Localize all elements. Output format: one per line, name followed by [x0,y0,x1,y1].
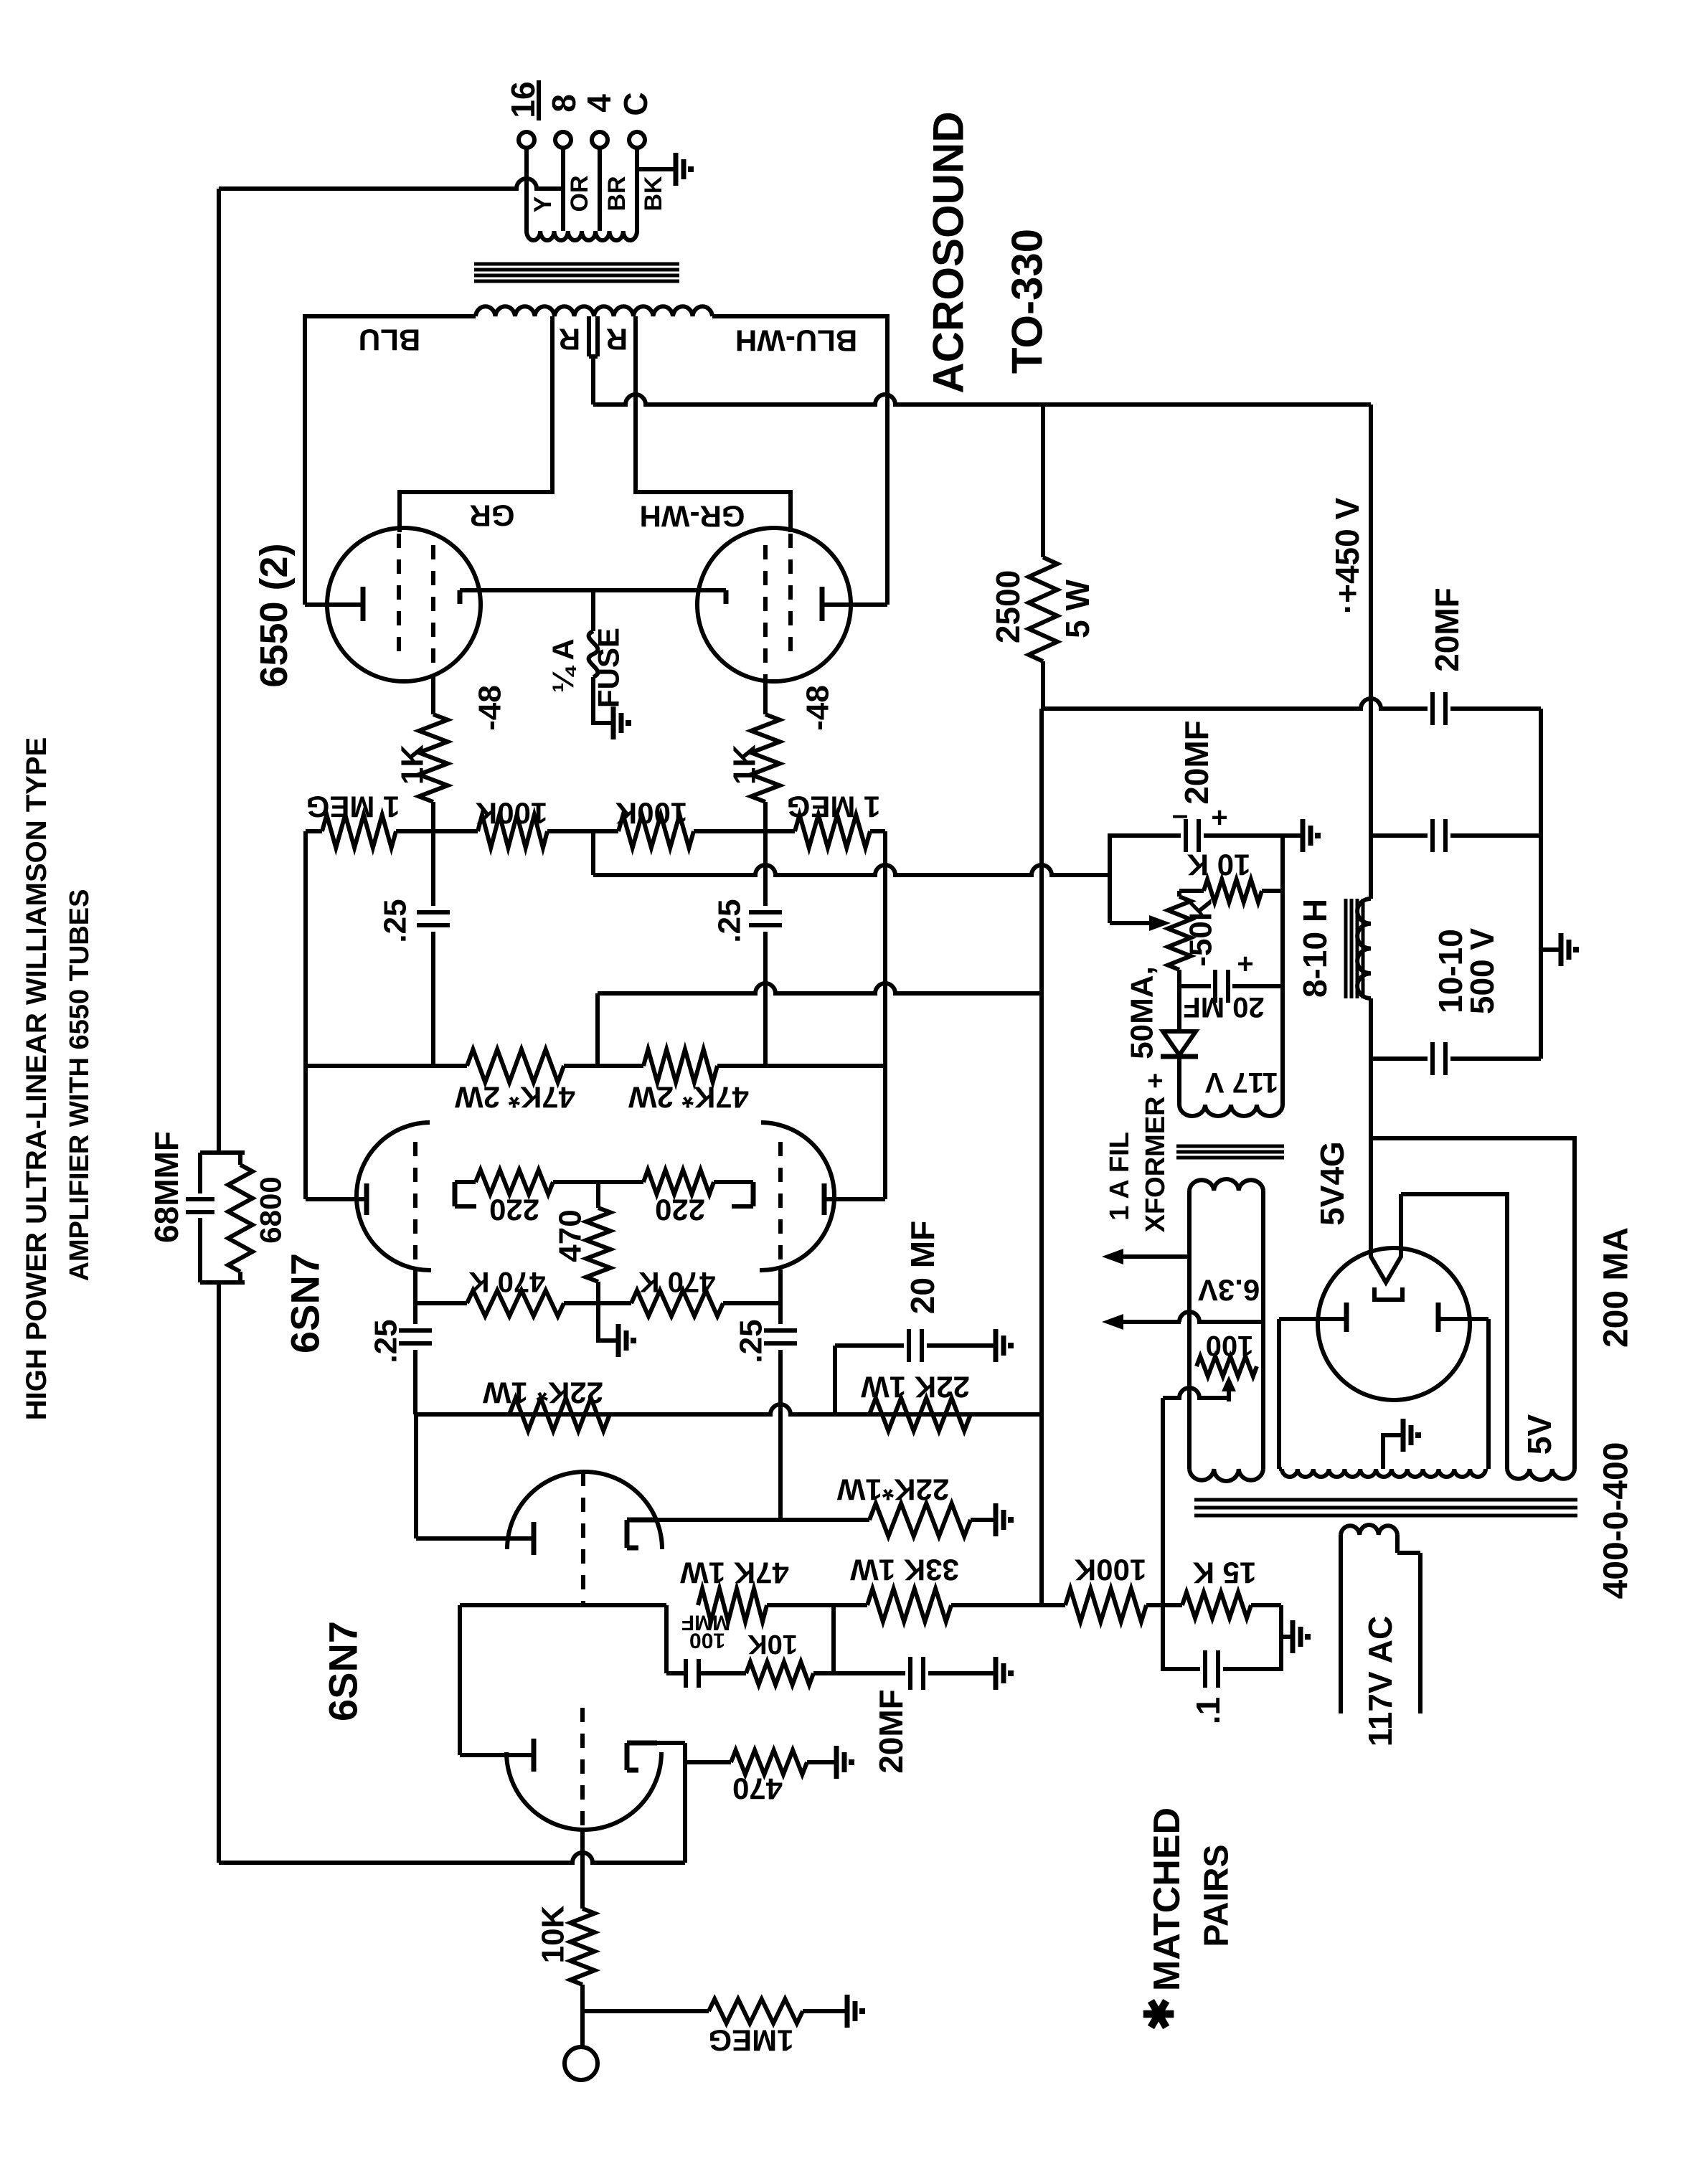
tube V4 plate [305,587,363,621]
wire R11 to junction [763,802,768,831]
svg-text:-50K: -50K [1184,898,1219,967]
label 10-10 [1432,929,1469,1013]
label 470K (left) [469,1266,546,1297]
label 6550 (2) [253,543,296,687]
label 470 (input) [732,1772,783,1806]
wire ground rail right [1539,709,1543,1059]
ground at C7 [993,1329,1011,1362]
resistor R7 1MEG (right) [795,815,870,848]
terminal C of output transformer secondary [629,132,645,148]
svg-text:✱: ✱ [1137,1998,1182,2031]
svg-text:100K: 100K [476,797,547,831]
svg-text:15 K: 15 K [1193,1556,1257,1590]
svg-text:100: 100 [689,1629,725,1653]
label 100 (hum pot) [1206,1330,1254,1361]
fuse F1 1/4A [589,631,598,677]
label .1 [1189,1697,1227,1724]
wire bias ground stub [1283,833,1300,838]
svg-text:BLU-WH: BLU-WH [735,324,857,358]
fil transformer 6.3V secondary [1189,1179,1263,1191]
label R (left) [559,323,580,356]
label 117 V (fil) [1205,1067,1279,1098]
label C [617,92,654,115]
label 100K (bias) [1075,1554,1146,1587]
wire splitter plate to C5 [414,1414,418,1538]
svg-text:50MA,: 50MA, [1125,966,1160,1059]
resistor R23 1MEG (grid leak) [582,1999,844,2023]
label TO-330 [1004,229,1052,374]
fil transformer 117V primary [1179,1105,1283,1116]
label -50K [1184,898,1219,967]
title line 2 [65,889,95,1282]
capacitor C8 20MF (input B+ bypass) [834,1657,993,1690]
wire 15K to ground [1281,1605,1290,1637]
resistor R29 15K (bias divider) [1163,1592,1281,1618]
resistor R4 47K 1W [698,1589,767,1622]
wire left driver column [306,831,364,1199]
wire V2 grid to C5 [413,1270,417,1324]
resistor R15 220 (right) [598,1170,753,1194]
wire fuse branch [591,590,595,631]
wire R center tap pair [589,316,598,405]
svg-text:47K* 2W: 47K* 2W [455,1081,575,1115]
label 68MMF [148,1131,185,1243]
potentiometer R27 100 (hum balance) [1197,1356,1257,1376]
label -48 (right) [801,685,836,731]
capacitor C14 20MF (bias reservoir) [1179,970,1283,1003]
resistor R12 470 (input cathode) [685,1750,834,1774]
resistor R5 33K 1W [867,1589,951,1622]
wire BLU lead [305,316,476,605]
label FUSE [592,628,626,708]
label minus (C13) [1172,799,1188,831]
svg-text:1K: 1K [395,744,430,785]
label 200 MA [1598,1227,1636,1348]
resistor R1 6800 [228,1153,253,1282]
label 1K (left) [395,744,430,785]
label MMF (C9) [681,1611,730,1635]
label BLU [359,323,420,357]
label 8-10 H [1296,899,1334,998]
wire driver B+ rail [1039,709,1044,1605]
wire heater rail left [1187,1191,1192,1469]
wire feedback from 8 ohm tap [219,179,563,189]
tube V6 cathode sleeve [1374,1287,1402,1300]
wire B+ center tap line to +450V rail [593,394,1371,405]
tube V2 plate [364,1183,369,1215]
svg-text:HIGH POWER ULTRA-LINEAR WILLIA: HIGH POWER ULTRA-LINEAR WILLIAMSON TYPE [21,737,52,1421]
note asterisk [1137,1998,1182,2031]
ground at fuse [610,706,628,739]
svg-text:BLU: BLU [359,323,420,357]
wire step network branch [666,1605,684,1673]
svg-text:–: – [1172,799,1188,831]
svg-text:22K* 1W: 22K* 1W [483,1376,603,1410]
label +450 V [1329,497,1366,614]
label 400-0-400 [1598,1442,1636,1599]
svg-text:2500: 2500 [989,570,1027,643]
resistor R14 220 (left) [455,1170,598,1194]
main transformer 5V winding [1507,1469,1575,1480]
resistor R16 47K 2W (left) [467,1049,564,1082]
ground at rail [1558,933,1576,966]
tube V3 cathode [732,1182,753,1206]
capacitor C11 10MF (filter) [1433,819,1541,852]
output transformer secondary winding [527,231,637,240]
wire +450 to C11 [1371,833,1428,838]
terminal 16 of output transformer secondary [519,132,534,148]
tube V5 6550 right envelope [697,528,851,681]
label 470 (driver) [553,1209,588,1262]
wire GR screen tap lead [400,316,552,532]
label 22K* 1W (cathode load) [836,1473,949,1507]
main transformer 117VAC primary [1341,1525,1397,1535]
wire heater rail right [1261,1191,1265,1469]
potentiometer R25 -50K [1168,891,1191,986]
svg-text:6550 (2): 6550 (2) [253,543,296,687]
wire grid resistor row [306,829,885,833]
label 100 (C9) [689,1629,725,1653]
label plus (bias cap) [1237,948,1253,980]
svg-text:68MMF: 68MMF [148,1131,185,1243]
label BK [640,176,667,212]
tube V5 screen grid (dashed) [788,534,793,657]
label BR [603,176,631,211]
label XFORMER + [1141,1073,1171,1233]
label 47K* 2W (right) [628,1081,749,1115]
label ACROSOUND [925,111,973,393]
svg-text:100: 100 [1206,1330,1254,1361]
svg-text:GR: GR [470,499,515,533]
svg-text:20MF: 20MF [1428,587,1466,672]
label 47K 1W [680,1556,789,1590]
svg-text:OR: OR [566,176,593,212]
resistor R21 22K 1W (plate load b) [869,1398,971,1431]
capacitor C12 10MF (filter input) [1433,1042,1541,1075]
label 33K 1W [850,1554,959,1587]
svg-text:220: 220 [655,1193,705,1227]
label 15K [1193,1556,1257,1590]
wire R10 to junction [431,802,435,831]
output transformer core [474,264,679,281]
wire V4 grid lead [431,681,435,714]
label GR-WH [640,500,745,534]
svg-text:5V4G: 5V4G [1313,1141,1351,1226]
label 1K (right) [727,744,763,785]
tube V1b cathode [627,1520,657,1548]
label 10K (input) [536,1905,571,1963]
svg-text:22K 1W: 22K 1W [861,1371,970,1404]
label 22K 1W (plate load b) [861,1371,970,1404]
tube V1b grid (dashed) [581,1472,585,1605]
fil transformer core [1176,1146,1284,1158]
label .25 (C6) [734,1319,769,1363]
svg-text:47K* 2W: 47K* 2W [628,1081,749,1115]
label 47K* 2W (left) [455,1081,575,1115]
svg-text:16: 16 [504,81,542,118]
tube V5 plate [822,587,887,621]
label 1 MEG (left) [306,790,400,824]
svg-text:33K 1W: 33K 1W [850,1554,959,1587]
label 22K* 1W (plate load a) [483,1376,603,1410]
wire GR-WH screen tap lead [636,316,791,532]
wire rectifier node [1369,998,1373,1249]
svg-text:R: R [606,323,628,356]
svg-text:.1: .1 [1189,1697,1227,1724]
resistor R24 2500 5W [1029,405,1057,709]
wire OR lead (8 ohm tap) [561,148,565,231]
resistor R26 10K (bias divider) [1179,879,1283,902]
svg-text:1 MEG: 1 MEG [306,790,400,824]
arrow heater feed 2 [1102,1312,1263,1330]
wire BLU-WH lead [712,316,887,605]
resistor R2 10K (grid stopper) [570,1909,595,1985]
tube V6 plate right [1438,1303,1488,1332]
tube V4 screen grid (dashed) [397,534,401,657]
wire 20MF branch [835,1346,904,1414]
ground at 15K [1290,1620,1308,1653]
tube V3 grid (dashed) [778,1142,783,1270]
svg-text:1K: 1K [727,744,763,785]
svg-text:C: C [617,92,654,115]
svg-text:470: 470 [732,1772,783,1806]
svg-text:TO-330: TO-330 [1004,229,1052,374]
wire input plate riser [458,1605,462,1755]
capacitor C13 20MF (bias filter) [1186,819,1283,852]
tube V5 cathode [724,590,729,604]
wire 5V return loop [1371,1138,1575,1469]
svg-text:200 MA: 200 MA [1598,1227,1636,1348]
label 100K (left) [476,797,547,831]
svg-text:20 MF: 20 MF [904,1221,941,1314]
output transformer primary winding [476,306,712,316]
label 10K (step) [747,1629,798,1659]
label -48 (left) [473,685,508,731]
ground at R12 [834,1746,851,1779]
label 117V AC [1362,1616,1399,1746]
capacitor C1 68MMF [186,1148,245,1282]
wire right plate to HV winding [1486,1319,1491,1469]
svg-text:-48: -48 [473,685,508,731]
svg-text:.25: .25 [378,899,413,942]
svg-text:5 W: 5 W [1059,580,1096,638]
wire cathode load to ground [971,1518,993,1522]
label R (right) [606,323,628,356]
svg-text:FUSE: FUSE [592,628,626,708]
svg-text:·+450 V: ·+450 V [1329,497,1366,614]
wire bias feed step [591,831,595,875]
tube V4 control grid (dashed) [431,545,435,681]
capacitor C9 100MMF [686,1659,746,1688]
label 20MF (C10) [1428,587,1466,672]
ground at HV center tap [1400,1419,1418,1452]
svg-text:47K 1W: 47K 1W [680,1556,789,1590]
wire mains lead right [1397,1535,1420,1713]
svg-text:1MEG: 1MEG [708,2024,793,2058]
resistor R10 1K (left) [419,714,448,802]
label 500V [1463,928,1501,1015]
terminal 8 of output transformer secondary [555,132,571,148]
tube V5 control grid (dashed) [763,545,768,681]
resistor R13 470 (driver cathode) [586,1182,615,1341]
svg-text:470 K: 470 K [639,1266,716,1297]
tube V1a plate [460,1739,534,1772]
label 8 [545,94,582,113]
tube V4 6550 left envelope [327,528,481,681]
svg-text:6SN7: 6SN7 [283,1253,328,1353]
wire filament to 5V winding [1401,1194,1507,1469]
svg-text:20MF: 20MF [872,1689,910,1774]
wire cathode bus of 6550s [502,588,726,592]
label 20 MF (C7) [904,1221,941,1314]
wire hum pot wiper line [1163,1388,1229,1605]
label 6SN7 (driver) [283,1253,328,1353]
arrow hum pot wiper [1222,1376,1236,1401]
svg-text:6800: 6800 [254,1176,288,1243]
tube V1b plate [416,1522,534,1555]
svg-text:BK: BK [640,176,667,212]
svg-text:GR-WH: GR-WH [640,500,745,534]
rectifier SR1 selenium 50MA [1161,1031,1198,1056]
wire V3 grid to C6 [778,1270,783,1324]
resistor R9 100K (right) [618,815,694,848]
tube V3 plate [822,1183,827,1215]
svg-text:XFORMER +: XFORMER + [1141,1073,1171,1233]
wire input plate row [460,1603,1042,1607]
wire feedback network bottom [200,1282,245,1863]
svg-text:1 MEG: 1 MEG [787,790,881,824]
resistor R18 470K (left) [467,1290,564,1316]
wire input grid lead [580,1830,585,1909]
wire right driver column [826,831,885,1199]
resistor R8 100K (left) [478,815,547,848]
svg-text:20MF: 20MF [1178,720,1215,805]
svg-text:-48: -48 [801,685,836,731]
label 220 (right) [655,1193,705,1227]
ground at R23 [844,1995,862,2028]
ground at C8 [993,1657,1011,1690]
resistor R28 100K (bias divider) [1042,1589,1163,1622]
label .25 (C5) [369,1319,404,1363]
label .25 (C3) [378,899,413,942]
input jack J1 [565,2047,598,2080]
resistor R22 22K 1W (cathode load) [869,1503,971,1536]
label 6.3V [1198,1274,1260,1308]
svg-text:.25: .25 [734,1319,769,1363]
label 20 MF (bias) [1183,991,1264,1023]
wire Y lead (16 ohm tap) [524,148,529,231]
arrow heater feed 1 [1102,1249,1189,1264]
tube V6 plate left [1279,1303,1346,1332]
svg-text:4: 4 [580,94,618,113]
resistor R11 1K (right) [751,714,780,802]
wire bias return rail [1280,836,1285,1105]
wire step network to 20MF node [813,1605,834,1673]
tube V1a cathode [627,1743,657,1770]
label .25 (C4) [712,899,747,942]
svg-text:8-10 H: 8-10 H [1296,899,1334,998]
svg-text:117V AC: 117V AC [1362,1616,1399,1746]
label OR [566,176,593,212]
label 6800 [254,1176,288,1243]
svg-text:¼ A: ¼ A [547,638,580,692]
svg-text:10 K: 10 K [1187,848,1251,882]
capacitor C4 .25 (right coupling) [749,831,782,1066]
svg-text:22K*1W: 22K*1W [836,1473,949,1507]
wire input cathode lead [657,1743,685,1863]
wire BK lead (common tap) [635,148,639,231]
label 16 [504,81,542,118]
wire mains lead left [1339,1535,1343,1713]
wire fuse to ground [593,677,610,723]
label 10 K (bias) [1187,848,1251,882]
main transformer core [1194,1500,1577,1516]
svg-text:10K: 10K [747,1629,798,1659]
svg-text:Y: Y [529,196,557,212]
wire screen B+ node line [1043,699,1428,709]
wire V5 grid lead [763,681,768,714]
choke L1 core [1346,899,1363,998]
label 1/4 A [547,638,580,692]
ground at bias filter [1300,819,1318,852]
tube V3 6SN7 driver right envelope [760,1122,834,1270]
wire rectifier to 117V winding [1177,1056,1181,1105]
label 6SN7 (input) [321,1621,366,1721]
resistor R20 22K 1W (plate load a) [509,1398,610,1431]
resistor R17 47K 2W (right) [643,1049,717,1082]
main transformer HV winding 400-0-400 [1282,1469,1486,1477]
svg-text:220: 220 [489,1193,539,1227]
arrow -50K wiper [1148,915,1171,931]
wire driver grid row [415,1301,780,1305]
wire HV center tap [1383,1435,1400,1469]
wire BR lead (4 ohm tap) [598,148,602,231]
wire splitter cathode row [657,1518,869,1522]
svg-text:500 V: 500 V [1463,928,1501,1015]
capacitor C10 20MF (screen node) [1433,692,1541,725]
label 100K (right) [615,797,687,831]
label 470K (right) [639,1266,716,1297]
capacitor C15 .1 (bias bypass) [1163,1605,1281,1688]
label 4 [580,94,618,113]
svg-text:+: + [1237,948,1253,980]
label 1 MEG (right) [787,790,881,824]
wire pot to rectifier [1177,986,1181,1031]
svg-text:6SN7: 6SN7 [321,1621,366,1721]
label 220 (left) [489,1193,539,1227]
svg-text:470 K: 470 K [469,1266,546,1297]
wire B+ rail riser [1369,405,1373,899]
label 20MF (C8) [872,1689,910,1774]
label BLU-WH [735,324,857,358]
capacitor C5 .25 (splitter to driver) [399,1330,432,1414]
label GR [470,499,515,533]
wire driver B+ step [595,993,600,1066]
svg-text:+: + [1211,802,1227,833]
wire driver plate row [306,1064,885,1068]
underline of 16 [537,80,541,120]
main transformer 6.3V winding [1189,1469,1263,1481]
svg-text:1 A FIL: 1 A FIL [1105,1132,1135,1221]
note MATCHED [1146,1807,1188,1991]
tube V1a 6SN7 input envelope [506,1752,661,1830]
svg-text:AMPLIFIER WITH 6550 TUBES: AMPLIFIER WITH 6550 TUBES [65,889,95,1282]
tube V1b 6SN7 splitter envelope [507,1472,662,1549]
svg-text:100K: 100K [1075,1554,1146,1587]
resistor R6 1MEG (left) [322,815,396,848]
tube V2 6SN7 driver left envelope [357,1122,431,1270]
wire wiper feed [1110,875,1148,923]
